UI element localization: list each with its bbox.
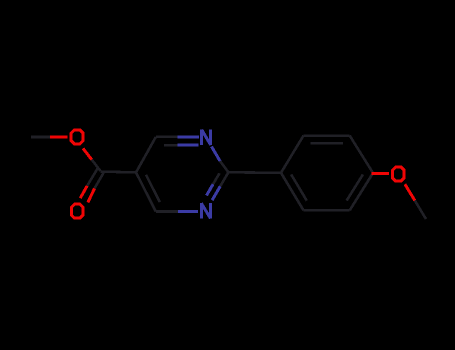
wire: C2=N1 inner blue half <box>207 184 214 195</box>
wire: C=O double bond line left dark <box>87 169 97 186</box>
node O2: carbonyl oxygen letter <box>71 204 83 218</box>
wire: phenyl C3'-C4' <box>350 136 373 173</box>
node O1: ester oxygen letter <box>71 130 83 144</box>
wire: C4=N3 outer dark half <box>156 136 178 139</box>
wire: C=O line right dark <box>95 173 104 189</box>
wire: phenyl C5'-C6' bottom edge <box>304 209 350 212</box>
wire: carbonyl C to ring C5 <box>101 170 137 173</box>
wire: phenyl C2'-C3' top edge <box>304 134 350 137</box>
node N1: pyrimidine nitrogen letter bottom <box>201 203 210 218</box>
wire: C6=C5 outer <box>136 172 156 211</box>
wire: O3-CH3 red half <box>405 184 415 200</box>
wire: C2-C1' biaryl bond <box>228 171 281 174</box>
wire: methyl C-H3C dark half of CH3-O ester bond <box>31 136 50 139</box>
wire: red half O1 to carbonyl C <box>83 148 92 159</box>
wire: C=O line left red <box>80 186 87 198</box>
wire: phenyl C6'-C1' <box>281 173 304 211</box>
wire: C4=N3 inner dark half <box>164 144 178 147</box>
wire: C6=C5 inner <box>146 175 160 202</box>
wire: O3-CH3 dark half <box>415 201 426 220</box>
wire: dark half O1 to carbonyl C <box>92 160 101 171</box>
node N3: pyrimidine nitrogen letter top <box>202 130 211 145</box>
wire: red half of CH3-O ester bond <box>50 136 67 139</box>
wire: phenyl C2'=C3' inner <box>310 142 342 145</box>
wire: C4'-O3 bond fully red <box>372 172 390 175</box>
wire: phenyl C6'=C1' inner <box>291 174 307 200</box>
wire: C4=N3 inner blue half <box>178 144 199 147</box>
wire: phenyl C1'-C2' <box>281 136 304 173</box>
wire: C2=N1 outer blue half <box>212 186 220 200</box>
node O3: methoxy oxygen letter <box>392 167 404 181</box>
wire: N3-C2 dark half <box>220 161 228 172</box>
wire: N3-C2 blue half <box>212 147 221 162</box>
wire: N1-C6 dark half <box>156 210 178 213</box>
wire: C2=N1 outer dark half <box>220 172 228 186</box>
wire: C4=N3 outer blue half <box>178 135 199 138</box>
wire: phenyl C4'=C5' inner <box>347 175 363 201</box>
wire: C5-C4 pyrimidine <box>136 137 156 172</box>
wire: N1-C6 blue half <box>178 210 198 213</box>
wire: phenyl C4'-C5' <box>350 173 373 210</box>
wire: C=O line right red <box>88 188 95 202</box>
wire: C2=N1 inner dark half <box>213 173 220 184</box>
